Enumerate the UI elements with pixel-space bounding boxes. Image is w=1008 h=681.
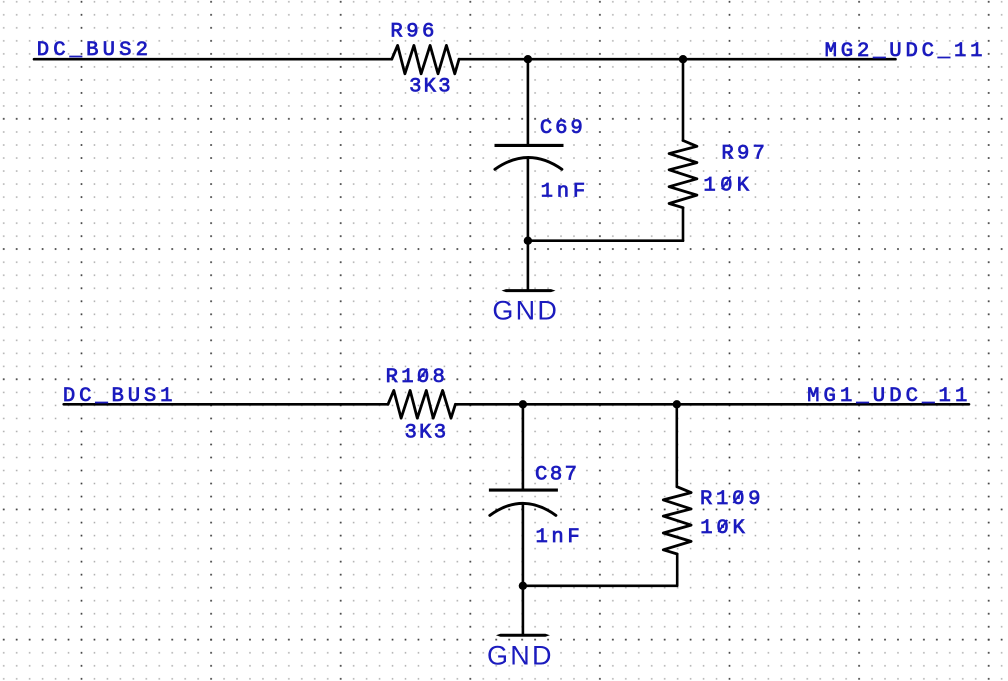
junction bottom node left: [519, 400, 527, 408]
capacitor C69 arc plate: [495, 158, 562, 170]
svg-text:C69: C69: [540, 117, 583, 140]
ground symbol top: [502, 289, 556, 292]
wire R96 to MG2_UDC_11: [459, 58, 896, 61]
svg-text:1nF: 1nF: [541, 180, 586, 203]
svg-text:3K3: 3K3: [405, 421, 447, 444]
slash of zero in 10K bottom: [718, 520, 727, 532]
wire node to GND top: [527, 241, 530, 290]
wire node to C69: [527, 59, 530, 144]
wire node to R97: [682, 59, 685, 140]
resistor R109: [663, 487, 691, 554]
capacitor C69 plate: [495, 144, 564, 147]
svg-text:GND: GND: [487, 641, 552, 671]
junction bottom rail node: [519, 582, 527, 590]
wire C87 to bottom node: [522, 503, 525, 585]
svg-text:C87: C87: [535, 463, 577, 486]
slash of zero in 10K top: [722, 176, 731, 189]
svg-text:10K: 10K: [700, 517, 745, 540]
capacitor C87 plate: [489, 489, 558, 492]
svg-text:R96: R96: [390, 21, 434, 44]
svg-text:R97: R97: [721, 143, 765, 166]
wire node to R109: [675, 404, 678, 487]
ground symbol bottom: [496, 634, 550, 637]
wire R97 to bottom rail: [682, 208, 685, 241]
resistor R108: [388, 390, 455, 418]
svg-text:3K3: 3K3: [409, 75, 451, 98]
wire C69 to bottom node: [527, 158, 530, 241]
svg-text:10K: 10K: [703, 174, 749, 197]
wire DC_BUS1 to R108: [64, 403, 388, 406]
wire node to GND bottom: [522, 586, 525, 634]
resistor R97: [669, 141, 697, 208]
junction top node right: [679, 55, 687, 63]
wire DC_BUS2 to R96: [34, 58, 392, 61]
wire bottom rail top circuit: [528, 239, 683, 242]
wire node to C87: [522, 404, 525, 488]
junction top node left: [524, 55, 532, 63]
slash of zero in R108: [418, 369, 427, 381]
wire R108 to MG1_UDC_11: [455, 403, 969, 406]
junction bottom node right: [673, 400, 681, 408]
junction bottom node top circuit: [524, 237, 532, 245]
wire bottom rail bottom circuit: [523, 584, 677, 587]
capacitor C87 arc plate: [490, 503, 556, 515]
wire R109 to bottom rail: [676, 554, 679, 586]
svg-text:DC_BUS1: DC_BUS1: [63, 385, 173, 408]
svg-text:1nF: 1nF: [536, 526, 580, 549]
resistor R96: [392, 45, 459, 73]
svg-text:DC_BUS2: DC_BUS2: [37, 39, 148, 62]
svg-text:GND: GND: [492, 295, 557, 325]
slash of zero in R109: [733, 491, 742, 503]
